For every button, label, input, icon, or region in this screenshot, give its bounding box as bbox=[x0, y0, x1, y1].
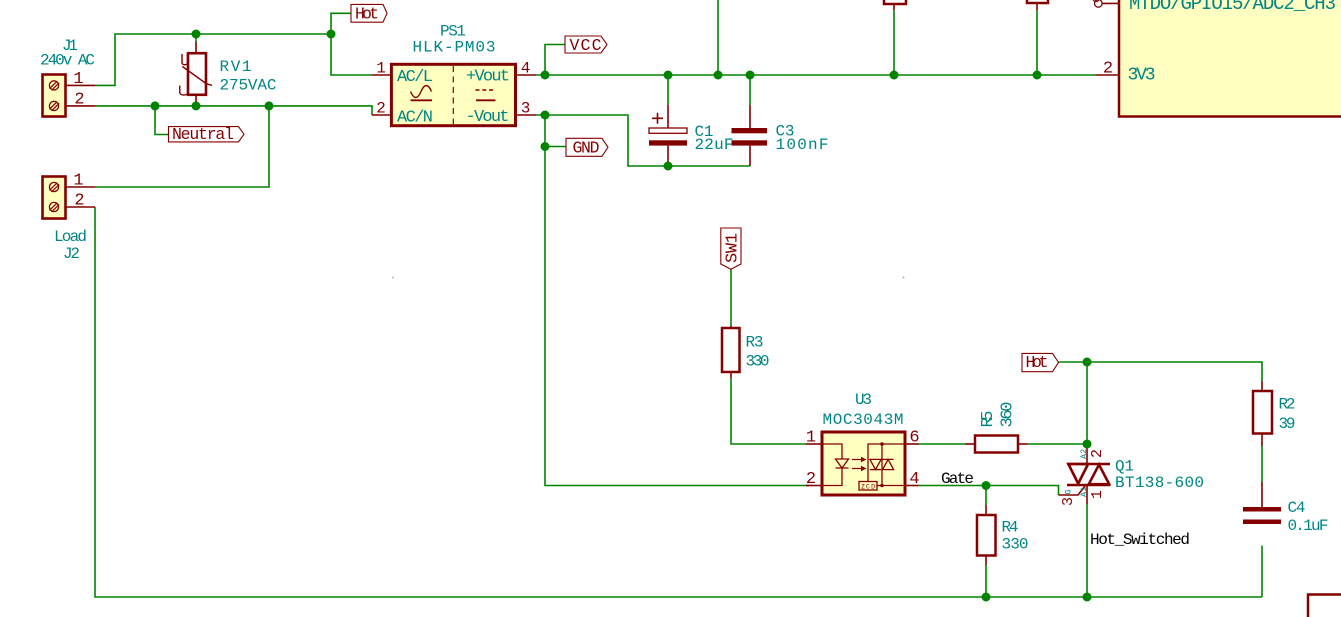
svg-text:1: 1 bbox=[73, 172, 83, 191]
svg-text:4: 4 bbox=[909, 470, 919, 489]
svg-text:360: 360 bbox=[999, 402, 1018, 428]
svg-text:R3: R3 bbox=[746, 334, 764, 352]
svg-text:SW1: SW1 bbox=[723, 233, 742, 263]
svg-text:C4: C4 bbox=[1288, 499, 1306, 517]
svg-text:2: 2 bbox=[74, 90, 84, 109]
svg-text:HLK-PM03: HLK-PM03 bbox=[413, 39, 496, 57]
svg-text:MTDO/GPIO15/ADC2_CH3: MTDO/GPIO15/ADC2_CH3 bbox=[1129, 0, 1336, 15]
svg-text:240v AC: 240v AC bbox=[40, 52, 95, 70]
svg-text:1: 1 bbox=[1089, 490, 1106, 499]
svg-text:AC/N: AC/N bbox=[397, 108, 433, 127]
svg-text:330: 330 bbox=[1002, 536, 1029, 554]
svg-text:MOC3043M: MOC3043M bbox=[823, 411, 904, 429]
svg-text:1: 1 bbox=[376, 60, 386, 78]
svg-text:BT138-600: BT138-600 bbox=[1115, 474, 1204, 492]
svg-text:22uF: 22uF bbox=[695, 136, 734, 154]
svg-text:2: 2 bbox=[74, 192, 84, 211]
svg-text:3: 3 bbox=[1060, 497, 1077, 506]
svg-text:100nF: 100nF bbox=[776, 136, 829, 154]
svg-text:Load: Load bbox=[54, 228, 87, 246]
svg-text:330: 330 bbox=[746, 353, 770, 371]
svg-text:3V3: 3V3 bbox=[1128, 66, 1156, 86]
svg-text:Q1: Q1 bbox=[1115, 458, 1134, 476]
svg-text:3: 3 bbox=[521, 100, 531, 118]
svg-text:J2: J2 bbox=[63, 245, 80, 263]
svg-text:2: 2 bbox=[1089, 449, 1106, 458]
svg-text:ZCD: ZCD bbox=[861, 484, 875, 491]
svg-text:0.1uF: 0.1uF bbox=[1288, 517, 1329, 535]
svg-text:R2: R2 bbox=[1279, 396, 1296, 414]
svg-text:Gate: Gate bbox=[941, 470, 974, 488]
svg-text:Hot_Switched: Hot_Switched bbox=[1090, 531, 1190, 549]
svg-text:G: G bbox=[1064, 489, 1074, 494]
svg-text:AC/L: AC/L bbox=[397, 68, 433, 87]
svg-text:2: 2 bbox=[1103, 60, 1113, 79]
svg-text:Hot: Hot bbox=[355, 4, 379, 23]
svg-text:2: 2 bbox=[806, 470, 816, 489]
svg-text:-Vout: -Vout bbox=[466, 108, 510, 127]
svg-text:+Vout: +Vout bbox=[466, 68, 510, 87]
svg-text:Hot: Hot bbox=[1026, 353, 1049, 372]
svg-text:U3: U3 bbox=[855, 391, 872, 409]
svg-text:GND: GND bbox=[573, 139, 600, 158]
svg-text:1: 1 bbox=[806, 429, 816, 448]
svg-text:Neutral: Neutral bbox=[172, 125, 234, 144]
svg-text:A1: A1 bbox=[1079, 487, 1089, 497]
svg-text:4: 4 bbox=[521, 60, 531, 78]
svg-text:R5: R5 bbox=[979, 411, 998, 428]
svg-text:2: 2 bbox=[376, 100, 386, 118]
svg-text:RV1: RV1 bbox=[220, 58, 252, 76]
svg-text:39: 39 bbox=[1279, 415, 1296, 433]
svg-text:A2: A2 bbox=[1079, 449, 1089, 459]
svg-text:1: 1 bbox=[73, 70, 83, 89]
svg-text:275VAC: 275VAC bbox=[220, 77, 277, 95]
svg-text:6: 6 bbox=[909, 429, 919, 448]
svg-text:VCC: VCC bbox=[570, 36, 602, 55]
svg-text:R4: R4 bbox=[1002, 519, 1019, 537]
svg-text:8: 8 bbox=[1091, 0, 1100, 7]
